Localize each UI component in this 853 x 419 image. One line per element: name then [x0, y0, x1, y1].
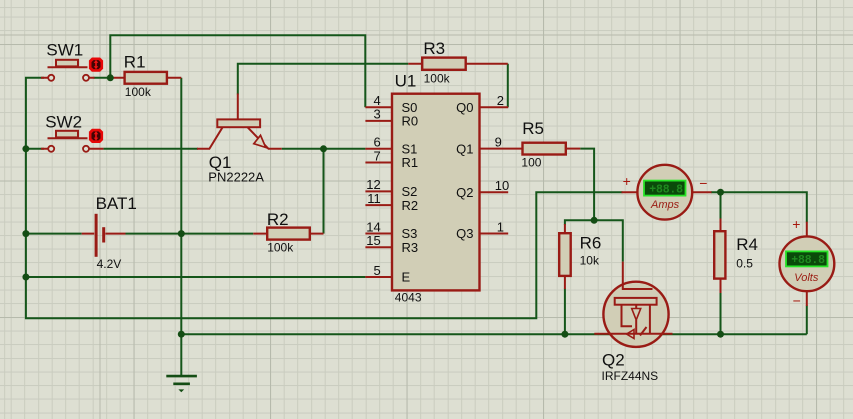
U1 pin 1 (Q3) [456, 219, 508, 241]
junction: left rail / E row [22, 274, 29, 281]
U1 pin 10 (Q2) [456, 178, 509, 200]
wire R1 right down to battery row [180, 78, 182, 234]
wire R4 bottom to ground rail [720, 293, 722, 335]
svg-text:7: 7 [373, 148, 380, 163]
svg-text:4.2V: 4.2V [97, 257, 122, 271]
wire net: Q1 base up to R3 left [238, 64, 408, 95]
IC U1 4043 [392, 71, 480, 304]
svg-text:5: 5 [373, 263, 380, 278]
voltmeter "Volts" [780, 216, 835, 309]
switch SW2 [41, 113, 103, 152]
svg-text:100k: 100k [424, 71, 451, 85]
wire battery to R2 left lead [126, 233, 254, 235]
wire ammeter right to junction and on to voltmeter [711, 192, 807, 222]
junction: battery row / ground drop [178, 230, 185, 237]
svg-text:E: E [402, 270, 411, 285]
svg-text:100: 100 [521, 155, 541, 169]
wire battery row left segment [26, 233, 82, 235]
wire junction to Q2 gate [593, 220, 623, 261]
U1 pin 9 (Q1) [456, 134, 522, 156]
SW2 actuator button icon [89, 129, 103, 143]
svg-text:+88.8: +88.8 [791, 254, 825, 267]
svg-text:R2: R2 [267, 210, 289, 229]
svg-text:SW1: SW1 [46, 40, 83, 59]
U1 pin 11 (R2) [365, 191, 418, 213]
svg-text:+: + [623, 173, 631, 189]
svg-text:4043: 4043 [395, 290, 422, 304]
svg-text:Q0: Q0 [456, 100, 473, 115]
svg-text:Q2: Q2 [602, 350, 625, 369]
svg-text:PN2222A: PN2222A [208, 169, 264, 184]
U1 pin 4 (S0) [365, 93, 417, 115]
MOSFET Q2 IRFZ44NS [594, 262, 672, 384]
junction: R4 bottom / ground rail [717, 331, 724, 338]
junction: ammeter / R4 / voltmeter node [717, 189, 724, 196]
switch SW1 [41, 40, 95, 80]
wire junction down to R2 right lead [323, 149, 325, 234]
wire battery row down to ground [180, 234, 182, 376]
svg-text:3: 3 [373, 107, 380, 122]
U1 pin 5 (E) [365, 263, 410, 285]
svg-text:9: 9 [495, 134, 502, 149]
svg-text:+88.8: +88.8 [649, 183, 683, 196]
svg-text:10k: 10k [580, 253, 600, 267]
wire net: SW1/R1 junction up and over to U1 pin 4 [110, 35, 365, 107]
svg-text:0.5: 0.5 [736, 256, 753, 270]
svg-text:−: − [699, 175, 707, 191]
svg-text:2: 2 [497, 93, 504, 108]
resistor R6 [559, 224, 601, 289]
U1 pin 7 (R1) [365, 148, 418, 170]
svg-text:R0: R0 [402, 114, 419, 129]
svg-text:1: 1 [497, 219, 504, 234]
svg-text:10: 10 [495, 178, 509, 193]
svg-text:R3: R3 [402, 240, 419, 255]
wire voltmeter bottom to ground rail [806, 306, 808, 335]
wire E row from rail to U1 pin 5 [26, 276, 366, 278]
U1 pin 15 (R3) [365, 233, 418, 255]
svg-text:R6: R6 [580, 233, 602, 252]
svg-text:Q2: Q2 [456, 185, 473, 200]
svg-text:R1: R1 [402, 155, 419, 170]
svg-text:Q3: Q3 [456, 226, 473, 241]
junction: left rail / SW2 [22, 145, 29, 152]
battery BAT1 [82, 194, 137, 271]
svg-text:11: 11 [367, 191, 381, 206]
svg-text:+: + [792, 216, 800, 232]
svg-text:R2: R2 [402, 198, 419, 213]
svg-text:U1: U1 [395, 71, 417, 90]
wire net: R3 right down to U1 pin 2 [507, 64, 509, 108]
U1 pin 14 (S3) [365, 219, 417, 241]
wire SW2 left to rail [26, 148, 44, 150]
ammeter "Amps" [622, 165, 712, 220]
svg-text:Q1: Q1 [456, 141, 473, 156]
svg-text:R5: R5 [522, 119, 544, 138]
svg-text:100k: 100k [125, 85, 152, 99]
U1 pin 3 (R0) [365, 107, 418, 129]
ground symbol [166, 376, 197, 392]
resistor R2 [253, 210, 323, 255]
svg-text:R4: R4 [736, 235, 758, 254]
junction: left rail / battery row [22, 230, 29, 237]
wire junction down to R4 top [720, 192, 722, 219]
svg-text:100k: 100k [267, 240, 294, 254]
wire SW2 right to Q1 collector [103, 148, 198, 150]
svg-text:−: − [793, 293, 801, 309]
svg-text:BAT1: BAT1 [96, 194, 137, 213]
U1 pin 6 (S1) [365, 135, 417, 157]
SW1 actuator button icon [89, 58, 103, 72]
transistor Q1 PN2222A [197, 94, 282, 185]
wire ground rail (bottom) [181, 333, 807, 335]
svg-text:SW2: SW2 [45, 113, 82, 132]
resistor R3 [408, 39, 508, 85]
wire R6 bottom to ground rail [564, 289, 566, 335]
junction: R5 / R6 / gate node [591, 217, 598, 224]
U1 pin 2 (Q0) [456, 93, 508, 115]
svg-text:R1: R1 [124, 52, 146, 71]
wire junction to R6 top [565, 220, 594, 225]
svg-text:Volts: Volts [794, 272, 819, 284]
resistor R5 [521, 119, 580, 169]
junction: R6 bottom / ground rail [561, 331, 568, 338]
svg-text:15: 15 [366, 233, 380, 248]
U1 pin 12 (S2) [365, 177, 417, 199]
resistor R1 [110, 52, 181, 99]
resistor R4 [714, 219, 758, 294]
junction: SW1/R1/top wire [107, 74, 114, 81]
junction: Q1 emitter / R2 / pin 6 [320, 145, 327, 152]
svg-text:Amps: Amps [650, 199, 680, 211]
wire SW1 right terminal to junction [94, 77, 111, 79]
wire net: left rail from SW1 down, bottom run to ammeter [26, 78, 623, 318]
svg-text:R3: R3 [423, 39, 445, 58]
junction: ground drop / ground rail [178, 331, 185, 338]
svg-text:IRFZ44NS: IRFZ44NS [602, 369, 659, 383]
wire Q1 emitter to U1 pin 6 [282, 148, 366, 150]
wire R5 right to junction node [580, 149, 594, 221]
